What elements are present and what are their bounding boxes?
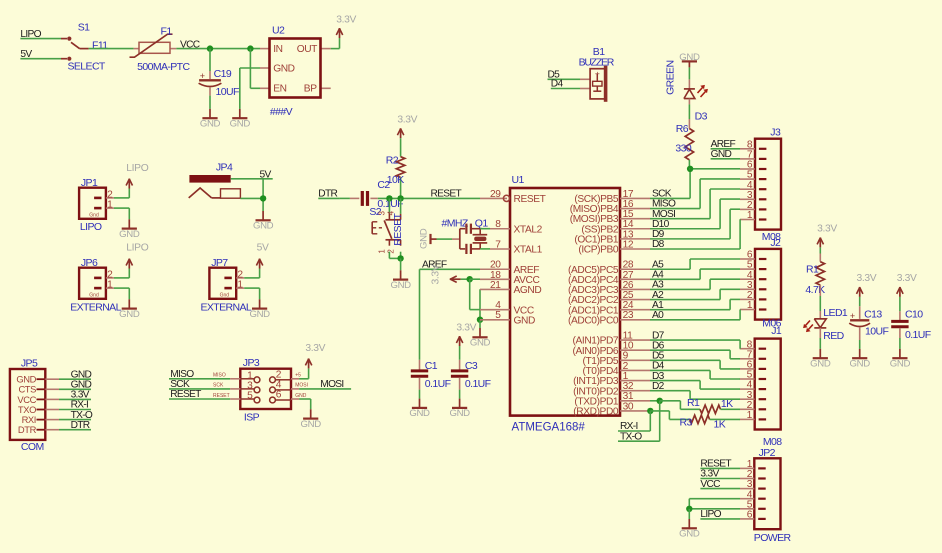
- wire AVCC VCC net: [467, 276, 481, 310]
- svg-text:GND: GND: [119, 229, 140, 240]
- wire JP1 pin1 to ground: [114, 208, 129, 219]
- wire RESET to JP2 pin1: [700, 459, 740, 470]
- wire LIPO to JP2 pin6: [700, 509, 740, 520]
- wire A4 to J2: [650, 269, 740, 280]
- wire U2 GND to ground: [240, 68, 260, 109]
- wire XTAL2: [480, 228, 490, 230]
- ground below JP6: [119, 299, 140, 320]
- svg-text:LIPO: LIPO: [126, 163, 148, 174]
- svg-text:3.3V: 3.3V: [305, 343, 325, 354]
- wire JP4 to 5V: [231, 170, 273, 181]
- svg-text:J2: J2: [770, 237, 781, 249]
- wire 5V input: [20, 49, 61, 60]
- svg-text:F11: F11: [92, 39, 108, 51]
- svg-text:GND: GND: [470, 338, 491, 349]
- wire A0 to J2: [650, 310, 740, 322]
- wire GND to J3 pin7: [711, 149, 740, 160]
- svg-text:VCC: VCC: [180, 40, 200, 51]
- buzzer B1: [579, 46, 615, 102]
- supply LIPO arrow at JP6: [126, 243, 149, 269]
- wire D10 to J3: [650, 199, 740, 230]
- svg-text:###V: ###V: [270, 106, 293, 118]
- svg-text:LIPO: LIPO: [126, 243, 148, 254]
- wire SCK to J3: [650, 169, 740, 200]
- wire MOSI to J3: [650, 189, 740, 220]
- capacitor C2 0.1UF: [340, 179, 403, 210]
- supply 3.3V at U2 output: [331, 15, 357, 49]
- wire JP1 pin2 to LIPO supply: [114, 189, 129, 198]
- svg-text:+5: +5: [295, 373, 301, 379]
- svg-text:JP4: JP4: [216, 162, 233, 174]
- svg-text:1: 1: [237, 280, 243, 291]
- ground below JP3: [301, 409, 322, 430]
- svg-text:4.7K: 4.7K: [805, 284, 825, 296]
- svg-text:XTAL1: XTAL1: [514, 245, 543, 256]
- svg-text:C2: C2: [377, 179, 390, 191]
- svg-text:RESET: RESET: [170, 389, 201, 400]
- resistor R11 4.7K: [805, 254, 825, 319]
- microcontroller U1 ATMEGA168: [480, 174, 650, 433]
- svg-text:IN: IN: [273, 44, 282, 55]
- svg-text:SELECT: SELECT: [68, 61, 106, 73]
- wires JP5 pins with net labels: [45, 369, 93, 431]
- svg-text:J1: J1: [771, 325, 782, 337]
- svg-text:OUT: OUT: [297, 44, 317, 55]
- wire DTR to C2: [318, 189, 340, 200]
- svg-text:GND: GND: [679, 529, 700, 540]
- svg-text:500MA-PTC: 500MA-PTC: [137, 61, 190, 73]
- svg-text:6: 6: [276, 390, 282, 401]
- wire JP6 pin1 to ground: [114, 288, 129, 299]
- capacitor C1 0.1UF: [411, 360, 451, 399]
- svg-text:Gnd: Gnd: [89, 293, 99, 299]
- svg-text:5V: 5V: [260, 170, 272, 181]
- wire TX-O: [618, 401, 660, 443]
- wire JP4 pad to ground node: [240, 179, 266, 211]
- svg-text:MISO: MISO: [213, 373, 226, 379]
- svg-text:JP6: JP6: [81, 257, 98, 269]
- svg-text:8: 8: [495, 219, 501, 230]
- svg-text:GND: GND: [514, 315, 535, 326]
- wire JP3 pin4 MOSI: [291, 379, 351, 390]
- svg-text:LIPO: LIPO: [20, 29, 41, 40]
- wire JP2 pin4 pin5 to ground: [686, 499, 740, 519]
- svg-text:DTR: DTR: [18, 424, 37, 435]
- svg-text:GND: GND: [230, 119, 251, 130]
- svg-text:GND: GND: [273, 64, 294, 75]
- svg-text:10UF: 10UF: [865, 325, 888, 337]
- wire AREF to J3 pin8: [711, 139, 740, 150]
- svg-text:0.1UF: 0.1UF: [425, 378, 451, 390]
- connector J3 M08: [740, 127, 781, 243]
- svg-text:7: 7: [495, 239, 501, 250]
- svg-text:3.3V: 3.3V: [857, 273, 877, 284]
- svg-text:C19: C19: [214, 68, 232, 80]
- svg-text:GND: GND: [409, 408, 430, 419]
- svg-text:5: 5: [495, 310, 501, 321]
- svg-text:C1: C1: [425, 360, 438, 372]
- connector JP6: [70, 257, 121, 314]
- ground below JP4: [253, 211, 274, 232]
- svg-text:12: 12: [623, 239, 634, 250]
- svg-text:3: 3: [378, 210, 387, 215]
- connector JP5: [10, 357, 45, 452]
- connector J1 M08: [740, 325, 783, 448]
- svg-text:GND: GND: [119, 309, 140, 320]
- svg-text:GND: GND: [890, 359, 911, 370]
- svg-text:#MHZ: #MHZ: [442, 217, 469, 229]
- svg-text:R6: R6: [676, 123, 689, 135]
- wires JP3 left side MISO SCK RESET: [169, 369, 240, 400]
- svg-text:D3: D3: [695, 110, 708, 122]
- svg-text:RESET: RESET: [392, 213, 404, 246]
- wire D3 to J1: [650, 371, 740, 389]
- svg-text:R2: R2: [386, 155, 399, 167]
- svg-text:3.3V: 3.3V: [397, 115, 417, 126]
- supply 3.3V arrow at JP3: [305, 343, 325, 368]
- regulator U2: [260, 25, 331, 118]
- supply 3.3V at R2: [397, 115, 417, 157]
- svg-text:(RXD)PD0: (RXD)PD0: [573, 407, 619, 418]
- svg-text:ISP: ISP: [244, 411, 260, 423]
- svg-text:GND: GND: [301, 419, 322, 430]
- svg-text:0.1UF: 0.1UF: [905, 329, 931, 341]
- svg-text:C13: C13: [864, 309, 882, 321]
- wire A3 to J2: [650, 279, 740, 290]
- svg-text:JP2: JP2: [759, 447, 776, 459]
- svg-text:1: 1: [747, 300, 753, 311]
- wire A2 to J2: [650, 289, 740, 301]
- supply 3.3V at C13: [857, 273, 877, 297]
- ground below C3: [449, 399, 470, 420]
- wire D9 to J3: [650, 209, 740, 240]
- svg-text:U2: U2: [272, 25, 285, 37]
- wire JP3 pin2 to 3.3V supply: [291, 368, 309, 378]
- connector JP1: [79, 177, 114, 233]
- svg-text:1: 1: [107, 200, 113, 211]
- wire JP7 pin1 to ground: [244, 288, 259, 299]
- supply LIPO arrow at JP1: [126, 163, 149, 189]
- svg-text:(ICP)PB0: (ICP)PB0: [578, 245, 619, 256]
- resistor R3 1K: [680, 415, 741, 430]
- wire AREF net to C1: [420, 260, 481, 360]
- jumper JP4: [189, 162, 241, 199]
- resistor R6 330: [675, 123, 693, 169]
- ground below U2 GND wire: [230, 109, 251, 130]
- svg-text:LED1: LED1: [823, 307, 848, 319]
- switch S1: [61, 22, 108, 73]
- svg-text:30: 30: [623, 401, 634, 412]
- ground below C13: [850, 349, 871, 370]
- resistor R1 1K: [680, 397, 740, 414]
- wire A1 to J2: [650, 299, 740, 311]
- svg-text:Gnd: Gnd: [89, 213, 99, 219]
- svg-text:RESET: RESET: [431, 189, 462, 200]
- svg-text:6: 6: [747, 510, 753, 521]
- wire JP3 pin6 to ground: [291, 399, 311, 409]
- svg-text:R1: R1: [806, 264, 819, 276]
- wire MISO to J3: [650, 179, 740, 210]
- svg-text:SCK: SCK: [213, 383, 224, 389]
- svg-text:0.1UF: 0.1UF: [465, 378, 491, 390]
- ground below C1: [409, 399, 430, 420]
- svg-text:23: 23: [623, 310, 634, 321]
- svg-text:1K: 1K: [714, 419, 726, 431]
- wire D4 to J1: [650, 361, 740, 379]
- svg-text:1: 1: [747, 210, 753, 221]
- wire D5 to J1: [650, 351, 740, 369]
- svg-text:RED: RED: [823, 330, 844, 342]
- svg-text:3.3V: 3.3V: [336, 15, 356, 26]
- wire RX-I: [618, 411, 650, 432]
- svg-text:J3: J3: [770, 127, 781, 139]
- ground below C10: [890, 349, 911, 370]
- wire D6 to J1: [650, 340, 740, 358]
- supply 3.3V at R11: [817, 223, 837, 253]
- svg-text:3.3V: 3.3V: [456, 322, 476, 333]
- svg-text:1: 1: [378, 249, 387, 254]
- ground below LED1: [810, 349, 831, 370]
- svg-text:JP5: JP5: [21, 357, 38, 369]
- svg-text:GND: GND: [200, 119, 221, 130]
- wire 3.3V to JP2 pin2: [700, 469, 740, 480]
- svg-text:GND: GND: [295, 393, 307, 399]
- wire D2 to J1: [650, 381, 740, 399]
- connector JP7: [201, 257, 252, 314]
- svg-text:Gnd: Gnd: [220, 293, 230, 299]
- svg-text:2: 2: [386, 249, 395, 254]
- svg-text:BP: BP: [304, 84, 317, 95]
- wire S1 to F1: [89, 48, 134, 50]
- ground above D3: [679, 52, 700, 89]
- svg-text:5: 5: [247, 391, 253, 402]
- connector JP2 POWER: [740, 447, 791, 544]
- svg-text:S1: S1: [78, 22, 90, 34]
- svg-text:5V: 5V: [20, 49, 32, 60]
- connector JP3 ISP: [213, 357, 308, 423]
- svg-text:C3: C3: [465, 360, 478, 372]
- wire D8 to J3: [650, 219, 740, 250]
- svg-text:R3: R3: [680, 417, 693, 429]
- svg-text:GND: GND: [810, 359, 831, 370]
- svg-text:3.3V: 3.3V: [431, 264, 442, 284]
- svg-text:R1: R1: [687, 397, 700, 409]
- svg-text:29: 29: [490, 189, 501, 200]
- capacitor C19 10UF: [199, 68, 239, 109]
- ground below S2: [390, 270, 411, 291]
- supply 3.3V at C3: [456, 322, 476, 360]
- wire JP6 pin2 to supply: [114, 269, 129, 278]
- ground below C19: [200, 109, 221, 130]
- svg-text:5V: 5V: [257, 243, 269, 254]
- svg-text:COM: COM: [21, 441, 44, 453]
- svg-text:GND: GND: [418, 228, 429, 249]
- svg-text:3.3V: 3.3V: [897, 273, 917, 284]
- wire RXD PD0 net: [647, 408, 690, 420]
- svg-text:21: 21: [490, 280, 501, 291]
- wire VCC to JP2 pin3: [700, 479, 740, 490]
- svg-text:GREEN: GREEN: [665, 61, 677, 95]
- switch S2 RESET: [369, 206, 404, 270]
- svg-text:RESET: RESET: [213, 393, 230, 399]
- svg-text:1: 1: [107, 280, 113, 291]
- svg-text:GND: GND: [390, 280, 411, 291]
- capacitor C10 0.1UF: [891, 309, 931, 349]
- connector J2 M06: [740, 237, 782, 330]
- svg-text:3.3V: 3.3V: [817, 223, 837, 234]
- junction SCK LED branch: [687, 166, 693, 172]
- ground below JP2: [679, 519, 700, 540]
- svg-text:EXTERNAL: EXTERNAL: [201, 302, 252, 314]
- supply 3.3V at C10: [897, 273, 917, 311]
- led D3 GREEN: [665, 61, 708, 129]
- wire VCC net: [176, 40, 260, 89]
- svg-text:10UF: 10UF: [216, 86, 239, 98]
- svg-text:C10: C10: [905, 309, 923, 321]
- svg-text:EXTERNAL: EXTERNAL: [70, 302, 121, 314]
- supply 5V arrow at JP7: [256, 243, 269, 269]
- fuse F1 500MA-PTC: [130, 26, 191, 74]
- svg-text:330: 330: [675, 143, 691, 155]
- svg-text:(ADC0)PC0: (ADC0)PC0: [568, 315, 619, 326]
- svg-text:LIPO: LIPO: [80, 221, 102, 233]
- svg-text:MOSI: MOSI: [295, 383, 308, 389]
- svg-text:GND: GND: [850, 359, 871, 370]
- svg-text:U1: U1: [512, 174, 525, 186]
- svg-text:DTR: DTR: [71, 420, 90, 431]
- wire LIPO input: [20, 29, 61, 40]
- svg-text:JP1: JP1: [81, 177, 98, 189]
- capacitor C3 0.1UF: [451, 360, 491, 399]
- svg-text:ATMEGA168#: ATMEGA168#: [512, 422, 586, 434]
- svg-text:1: 1: [747, 410, 753, 421]
- led LED1 RED: [803, 307, 848, 349]
- svg-text:XTAL2: XTAL2: [514, 224, 543, 235]
- wire AGND to GND net: [477, 289, 483, 328]
- svg-text:RESET: RESET: [514, 194, 546, 205]
- svg-text:GND: GND: [449, 408, 470, 419]
- svg-text:GND: GND: [249, 309, 270, 320]
- supply 3.3V arrow feeding AVCC: [431, 264, 470, 284]
- svg-text:JP3: JP3: [243, 357, 260, 369]
- wire JP7 pin2 to supply: [244, 269, 259, 278]
- ground below U1 GND pin: [470, 328, 491, 349]
- ground at Q1: [418, 228, 460, 249]
- svg-text:POWER: POWER: [754, 532, 792, 544]
- svg-text:AGND: AGND: [514, 285, 542, 296]
- svg-text:F1: F1: [161, 26, 173, 38]
- wire XTAL1: [480, 248, 490, 250]
- svg-text:GND: GND: [253, 221, 274, 232]
- svg-text:1K: 1K: [721, 398, 733, 410]
- ground below JP1: [119, 219, 140, 240]
- wire D4 to buzzer: [551, 79, 580, 90]
- svg-text:Q1: Q1: [475, 217, 489, 229]
- wire D7 to J1: [650, 330, 740, 348]
- svg-text:EN: EN: [273, 84, 286, 95]
- capacitor C13 10UF: [849, 297, 888, 349]
- wire D5 to buzzer: [548, 70, 581, 81]
- svg-text:BUZZER: BUZZER: [579, 57, 615, 69]
- resistor R2 10K: [386, 155, 405, 199]
- wire A5 to J2: [650, 259, 740, 270]
- resonator Q1 #MHZ: [442, 217, 489, 254]
- svg-text:MOSI: MOSI: [320, 379, 343, 390]
- wire RESET net: [378, 189, 480, 214]
- ground below JP7: [249, 299, 270, 320]
- wire TXD PD1 net: [650, 398, 680, 410]
- svg-text:JP7: JP7: [211, 257, 228, 269]
